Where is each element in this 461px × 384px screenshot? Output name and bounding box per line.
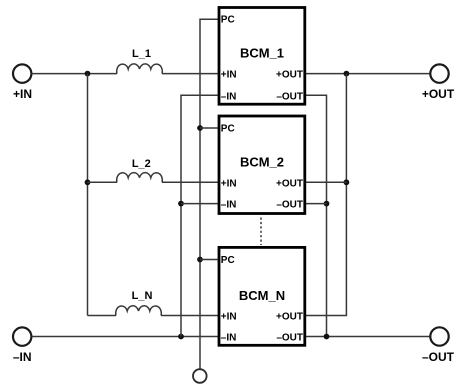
wire PC rail bbox=[200, 19, 219, 369]
terminal -IN bbox=[13, 327, 31, 345]
wire L_1 to BCM_1 +IN bbox=[162, 73, 219, 75]
svg-text:+OUT: +OUT bbox=[276, 70, 303, 81]
svg-text:L_1: L_1 bbox=[132, 48, 151, 60]
junction BCM_N PC bbox=[197, 257, 203, 263]
dashed continuation line bbox=[260, 218, 262, 246]
svg-text:–IN: –IN bbox=[221, 333, 237, 344]
svg-text:–IN: –IN bbox=[221, 91, 237, 102]
svg-text:+OUT: +OUT bbox=[276, 178, 303, 189]
inductor L_N bbox=[116, 306, 162, 316]
wire +IN terminal to L_1 bbox=[32, 73, 117, 75]
wire +OUT BCM_1 to terminal bbox=[305, 73, 431, 75]
svg-text:L_2: L_2 bbox=[132, 158, 151, 170]
wire -OUT BCM_N to terminal bbox=[305, 336, 431, 338]
wire BCM_N PC stub bbox=[200, 259, 219, 261]
svg-text:+IN: +IN bbox=[221, 312, 237, 323]
wire L_N branch bbox=[88, 315, 117, 317]
junction -IN rail bottom bbox=[178, 334, 184, 340]
svg-text:–OUT: –OUT bbox=[276, 333, 303, 344]
wire -IN rail bbox=[181, 95, 219, 336]
module BCM_2 bbox=[219, 116, 305, 214]
junction BCM_2 -IN bbox=[178, 201, 184, 207]
wire +OUT rail bbox=[305, 74, 347, 316]
wire BCM_2 PC stub bbox=[200, 127, 219, 129]
junction +IN rail top bbox=[85, 71, 91, 77]
wire -IN terminal to BCM_N bbox=[32, 336, 219, 338]
svg-text:+OUT: +OUT bbox=[422, 87, 455, 101]
svg-text:PC: PC bbox=[221, 255, 235, 266]
svg-text:PC: PC bbox=[221, 124, 235, 135]
terminal -OUT bbox=[430, 327, 448, 345]
inductor L_2 bbox=[117, 173, 163, 183]
svg-text:BCM_N: BCM_N bbox=[239, 288, 285, 303]
svg-text:–IN: –IN bbox=[13, 350, 32, 364]
wire BCM_2 -OUT stub bbox=[305, 203, 327, 205]
junction -OUT rail bottom bbox=[324, 334, 330, 340]
wire BCM_2 +OUT stub bbox=[305, 181, 347, 183]
svg-text:BCM_1: BCM_1 bbox=[240, 46, 284, 61]
junction L_2 branch bbox=[85, 179, 91, 185]
terminal +IN bbox=[13, 64, 31, 82]
svg-text:L_N: L_N bbox=[132, 290, 153, 302]
svg-text:+OUT: +OUT bbox=[276, 312, 303, 323]
module BCM_1 bbox=[219, 8, 305, 105]
wire L_2 branch bbox=[88, 181, 118, 183]
svg-text:PC: PC bbox=[221, 15, 235, 26]
wire +IN rail bbox=[87, 74, 89, 316]
terminal +OUT bbox=[430, 64, 448, 82]
junction BCM_2 -OUT bbox=[324, 201, 330, 207]
terminal PC bbox=[193, 369, 207, 383]
svg-text:BCM_2: BCM_2 bbox=[240, 155, 284, 170]
wire L_2 to BCM_2 +IN bbox=[162, 181, 219, 183]
svg-text:–OUT: –OUT bbox=[276, 91, 303, 102]
svg-text:+IN: +IN bbox=[13, 87, 32, 101]
junction BCM_2 +OUT bbox=[344, 179, 350, 185]
module BCM_N bbox=[219, 247, 305, 345]
svg-text:+IN: +IN bbox=[221, 70, 237, 81]
svg-text:–OUT: –OUT bbox=[422, 350, 455, 364]
wire -OUT rail bbox=[305, 95, 327, 336]
wire L_N to BCM_N +IN bbox=[161, 315, 219, 317]
wire BCM_2 -IN stub bbox=[181, 203, 219, 205]
inductor L_1 bbox=[117, 64, 163, 74]
svg-text:+IN: +IN bbox=[221, 178, 237, 189]
svg-text:–OUT: –OUT bbox=[276, 200, 303, 211]
svg-text:–IN: –IN bbox=[221, 200, 237, 211]
junction +OUT rail top bbox=[344, 71, 350, 77]
junction BCM_2 PC bbox=[197, 125, 203, 131]
